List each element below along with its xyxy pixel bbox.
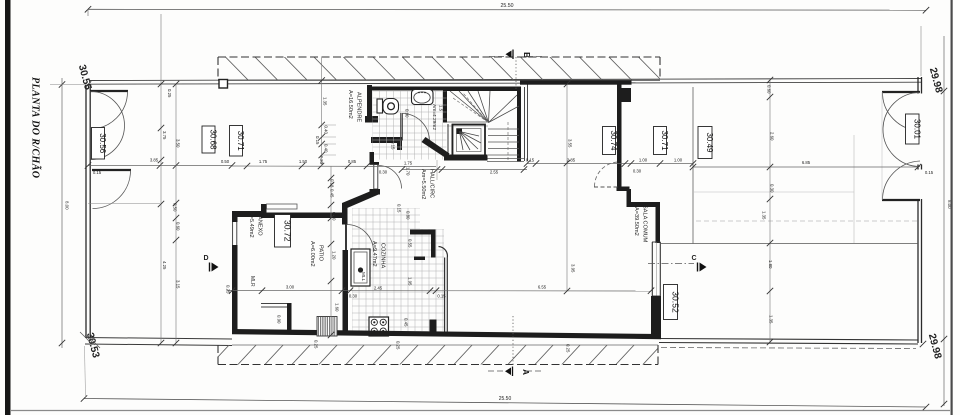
svg-text:Am=5.50m2: Am=5.50m2 <box>420 169 426 199</box>
svg-text:1.75: 1.75 <box>259 159 268 164</box>
gate leaf top-right <box>882 91 920 93</box>
svg-text:30.49: 30.49 <box>705 132 714 153</box>
stairs right wall <box>517 87 521 162</box>
svg-text:0.50: 0.50 <box>221 159 230 164</box>
svg-text:25.50: 25.50 <box>501 3 514 9</box>
gate arc right half <box>883 93 920 167</box>
svg-text:0.85: 0.85 <box>348 159 357 164</box>
stair dashed line <box>507 122 509 160</box>
page right border <box>951 0 953 415</box>
svg-text:0.45: 0.45 <box>330 189 335 198</box>
svg-text:A=6.00m2: A=6.00m2 <box>309 241 315 267</box>
right boundary wall <box>917 77 919 94</box>
WC hinge pier <box>397 137 402 150</box>
svg-text:30.72: 30.72 <box>283 220 293 242</box>
WC bottom wall bar <box>371 137 401 143</box>
anexo ne pier <box>261 204 267 217</box>
sala dim vertical <box>566 84 568 291</box>
svg-text:30.56: 30.56 <box>98 133 107 154</box>
svg-text:0.15: 0.15 <box>93 170 102 175</box>
patio low wall <box>261 303 288 305</box>
svg-text:0.80: 0.80 <box>406 211 411 220</box>
sala top wall <box>520 81 632 85</box>
svg-text:HALL/CIRC: HALL/CIRC <box>429 169 435 198</box>
svg-text:Am=4.29m2: Am=4.29m2 <box>431 104 437 130</box>
gate leaf bottom-right <box>882 199 920 201</box>
porch-hall door arc <box>378 165 401 188</box>
svg-text:3.15: 3.15 <box>176 280 181 289</box>
gate tip guide <box>881 92 883 200</box>
left chamfer wall <box>342 190 379 209</box>
shower spray lines <box>460 132 479 150</box>
svg-text:0.15: 0.15 <box>397 204 402 213</box>
shower head <box>457 129 463 135</box>
svg-text:1.95: 1.95 <box>408 277 413 286</box>
svg-text:A=9.47m2: A=9.47m2 <box>371 241 377 267</box>
svg-text:0.40: 0.40 <box>324 126 329 135</box>
level label 30.71 <box>230 126 243 157</box>
svg-text:0.60: 0.60 <box>176 222 181 231</box>
anexo window <box>232 222 234 245</box>
level label 30.01 <box>906 114 920 144</box>
svg-text:0.15: 0.15 <box>437 294 446 299</box>
porch-hall door leaf <box>374 165 378 190</box>
svg-text:30.68: 30.68 <box>209 129 218 150</box>
svg-text:COZINHA: COZINHA <box>380 243 386 268</box>
section marker B <box>506 51 512 59</box>
yard paving light h <box>694 191 854 193</box>
sala south pier <box>430 320 437 334</box>
svg-text:8.00: 8.00 <box>947 200 952 209</box>
patio se pier <box>287 303 292 334</box>
kitchen door leaf <box>345 224 347 251</box>
svg-text:3.85: 3.85 <box>150 158 159 163</box>
svg-text:0.30: 0.30 <box>379 170 388 175</box>
patio north wall <box>261 213 347 219</box>
dim chain hall <box>402 169 527 171</box>
stair bottom boundary <box>487 158 524 160</box>
kitchen sink unit <box>351 249 370 286</box>
gate arc top-left quarter <box>90 92 128 130</box>
curved wall kitchen/sala <box>439 247 448 258</box>
top dimension line 25.50 <box>88 8 926 11</box>
sala east window <box>651 242 653 296</box>
svg-text:PATIO: PATIO <box>318 245 324 262</box>
svg-text:25.50: 25.50 <box>499 396 512 402</box>
WC step detail <box>365 116 378 123</box>
yard division line <box>692 87 694 244</box>
stair flight treads <box>488 128 519 130</box>
svg-text:3.75: 3.75 <box>162 131 167 140</box>
svg-text:2.45: 2.45 <box>374 286 383 291</box>
svg-text:2.85: 2.85 <box>567 158 576 163</box>
svg-text:1.80: 1.80 <box>768 260 773 269</box>
level label 30.72 <box>275 215 291 248</box>
svg-text:1.70: 1.70 <box>406 167 411 176</box>
porch corner column <box>219 80 228 89</box>
svg-text:0.25: 0.25 <box>396 341 401 350</box>
svg-text:A=39.50m2: A=39.50m2 <box>633 207 639 236</box>
svg-text:0.30: 0.30 <box>633 169 642 174</box>
svg-text:3.55: 3.55 <box>568 139 573 148</box>
svg-text:0.30: 0.30 <box>770 184 775 193</box>
toilet <box>377 99 383 113</box>
svg-text:A=5.49m2: A=5.49m2 <box>248 212 254 238</box>
svg-text:0.30: 0.30 <box>349 294 358 299</box>
svg-text:0.25: 0.25 <box>566 344 571 353</box>
sala east wall upper <box>617 84 622 190</box>
level label 30.71 <box>654 127 667 155</box>
svg-text:0.25: 0.25 <box>167 89 172 98</box>
kitchen flue wall top <box>410 230 436 235</box>
level label 30.74 <box>603 127 616 155</box>
stair well bottom edge <box>447 121 488 123</box>
page bottom border <box>11 410 950 412</box>
svg-text:1.50: 1.50 <box>299 159 308 164</box>
svg-text:30.71: 30.71 <box>236 131 245 152</box>
left boundary wall <box>85 85 87 338</box>
right chamfer wall <box>422 137 450 159</box>
svg-text:3.00: 3.00 <box>286 285 295 290</box>
WC left wall <box>367 85 372 123</box>
svg-text:1.20: 1.20 <box>332 251 337 260</box>
svg-text:1.35: 1.35 <box>323 97 328 106</box>
svg-text:0.80: 0.80 <box>332 212 337 221</box>
svg-text:1.00: 1.00 <box>639 158 648 163</box>
svg-text:30.74: 30.74 <box>609 130 618 151</box>
svg-text:0.40: 0.40 <box>324 144 329 153</box>
porch door pier <box>370 152 375 165</box>
svg-text:1.60: 1.60 <box>335 303 340 312</box>
sala SE corner wall <box>651 296 661 337</box>
svg-text:SALA COMUM: SALA COMUM <box>642 205 648 243</box>
svg-text:2.20: 2.20 <box>319 156 324 165</box>
stairs top wall <box>447 87 521 92</box>
svg-text:0.45: 0.45 <box>404 318 409 327</box>
stair/sala double wall <box>524 87 526 161</box>
svg-text:ALPENDRE: ALPENDRE <box>356 92 362 122</box>
svg-text:0.15: 0.15 <box>925 170 934 175</box>
svg-text:1.5: 1.5 <box>439 105 444 112</box>
svg-text:0.25: 0.25 <box>314 340 319 349</box>
sala dashed door leaf <box>594 186 619 188</box>
sala dashed door arc <box>595 162 620 187</box>
patio dim vertical <box>330 166 332 336</box>
WC sink partition wall <box>443 87 447 123</box>
gate leaf top-left <box>90 90 128 92</box>
svg-text:1.35: 1.35 <box>762 211 767 220</box>
svg-text:8.00: 8.00 <box>65 201 70 210</box>
svg-text:0.15: 0.15 <box>391 141 396 150</box>
yard terrace line <box>661 243 918 245</box>
gate arc 2 left <box>93 171 131 209</box>
WC door arc <box>402 114 430 142</box>
page left border bar <box>5 0 11 415</box>
svg-text:6.55: 6.55 <box>538 285 547 290</box>
hall south wall piece <box>370 189 381 195</box>
svg-text:ANEXO: ANEXO <box>257 216 263 236</box>
wall under shower <box>444 155 488 161</box>
WC top wall <box>367 87 447 91</box>
left dimension line 8.00 <box>61 78 63 348</box>
svg-text:C: C <box>691 255 696 262</box>
bottom dimension line 25.50 <box>84 399 926 408</box>
shower tray <box>453 125 486 156</box>
svg-text:1.00: 1.00 <box>674 158 683 163</box>
porch dim vertical <box>321 57 323 166</box>
svg-text:MLL: MLL <box>360 272 366 282</box>
svg-text:2.60: 2.60 <box>770 132 775 141</box>
kitchen west wall upper <box>342 203 348 225</box>
svg-text:0.90: 0.90 <box>405 109 410 118</box>
gate arc bottom-right <box>883 161 921 200</box>
yard paving light v <box>853 135 855 243</box>
svg-text:3.50: 3.50 <box>176 139 181 148</box>
svg-text:30.01: 30.01 <box>912 119 921 140</box>
dim chain y166 porch <box>232 165 436 168</box>
svg-text:0.18: 0.18 <box>330 179 335 188</box>
anexo left wall upper <box>232 211 238 222</box>
svg-text:0.15: 0.15 <box>315 136 320 145</box>
gate arc top-left half <box>91 92 125 160</box>
dim chain y166 left yard <box>88 165 232 167</box>
svg-text:0.60: 0.60 <box>767 85 772 94</box>
wash basin <box>412 90 434 105</box>
right yard dim vertical <box>769 79 771 342</box>
svg-text:0.90: 0.90 <box>277 315 282 324</box>
svg-text:A=16.50m2: A=16.50m2 <box>347 90 353 119</box>
svg-text:30.52: 30.52 <box>671 291 681 313</box>
svg-text:30.71: 30.71 <box>660 130 669 151</box>
right dimension line 8.00 <box>943 36 945 406</box>
anexo top wall <box>232 211 266 217</box>
svg-text:D: D <box>203 255 208 262</box>
patio steps <box>317 317 337 337</box>
kitchen low wall bar <box>414 257 425 261</box>
sala east step walls <box>617 187 630 192</box>
stair winder fan <box>450 91 489 123</box>
bottom-right corner tick <box>920 341 926 347</box>
level label 30.56 <box>92 128 105 160</box>
svg-text:MLR: MLR <box>249 276 255 287</box>
svg-text:A: A <box>521 369 530 375</box>
left yard paving line <box>88 203 160 205</box>
kitchen west wall lower <box>343 250 349 335</box>
bottom boundary fence left <box>85 338 232 340</box>
kitchen flue wall right <box>431 230 436 258</box>
svg-text:PLANTA DO R/CHÃO: PLANTA DO R/CHÃO <box>30 77 42 178</box>
svg-text:0.25: 0.25 <box>226 285 231 294</box>
bottom boundary fence right <box>659 339 918 341</box>
house south wall <box>232 329 661 339</box>
svg-text:0.15: 0.15 <box>526 158 535 163</box>
svg-text:2.55: 2.55 <box>490 170 499 175</box>
svg-text:1.75: 1.75 <box>404 161 413 166</box>
svg-text:0.50: 0.50 <box>173 203 178 212</box>
anexo left wall lower <box>232 245 238 334</box>
WC door leaf <box>400 113 402 141</box>
wc dim vertical <box>436 160 438 180</box>
level label 30.68 <box>202 126 215 153</box>
top boundary fence <box>90 79 921 81</box>
svg-text:1.35: 1.35 <box>769 315 774 324</box>
yard dashed line <box>696 220 918 222</box>
dim chain sala top <box>527 163 693 165</box>
gate arc right quarter <box>883 93 921 131</box>
section marker A <box>505 368 511 376</box>
level label 30.49 <box>698 127 712 159</box>
shower enclosure wall <box>447 124 449 156</box>
kitchen door arc <box>347 225 374 252</box>
dim chain y290 <box>227 290 651 293</box>
svg-text:3.95: 3.95 <box>571 264 576 273</box>
sala east pier <box>618 88 632 102</box>
left yard dim vertical 2 <box>175 84 177 343</box>
patio step slab <box>267 204 298 209</box>
kitchen stove <box>369 317 389 336</box>
gate leaf 2 left <box>92 169 131 171</box>
svg-text:6.85: 6.85 <box>802 160 811 165</box>
left yard dim vertical 1 <box>160 14 162 343</box>
svg-text:4.25: 4.25 <box>162 261 167 270</box>
bottom-left corner mark <box>80 332 90 342</box>
level label 30.52 <box>664 285 678 320</box>
svg-text:0.55: 0.55 <box>408 239 413 248</box>
svg-text:B: B <box>522 52 531 58</box>
dim chain right yard <box>693 166 918 168</box>
